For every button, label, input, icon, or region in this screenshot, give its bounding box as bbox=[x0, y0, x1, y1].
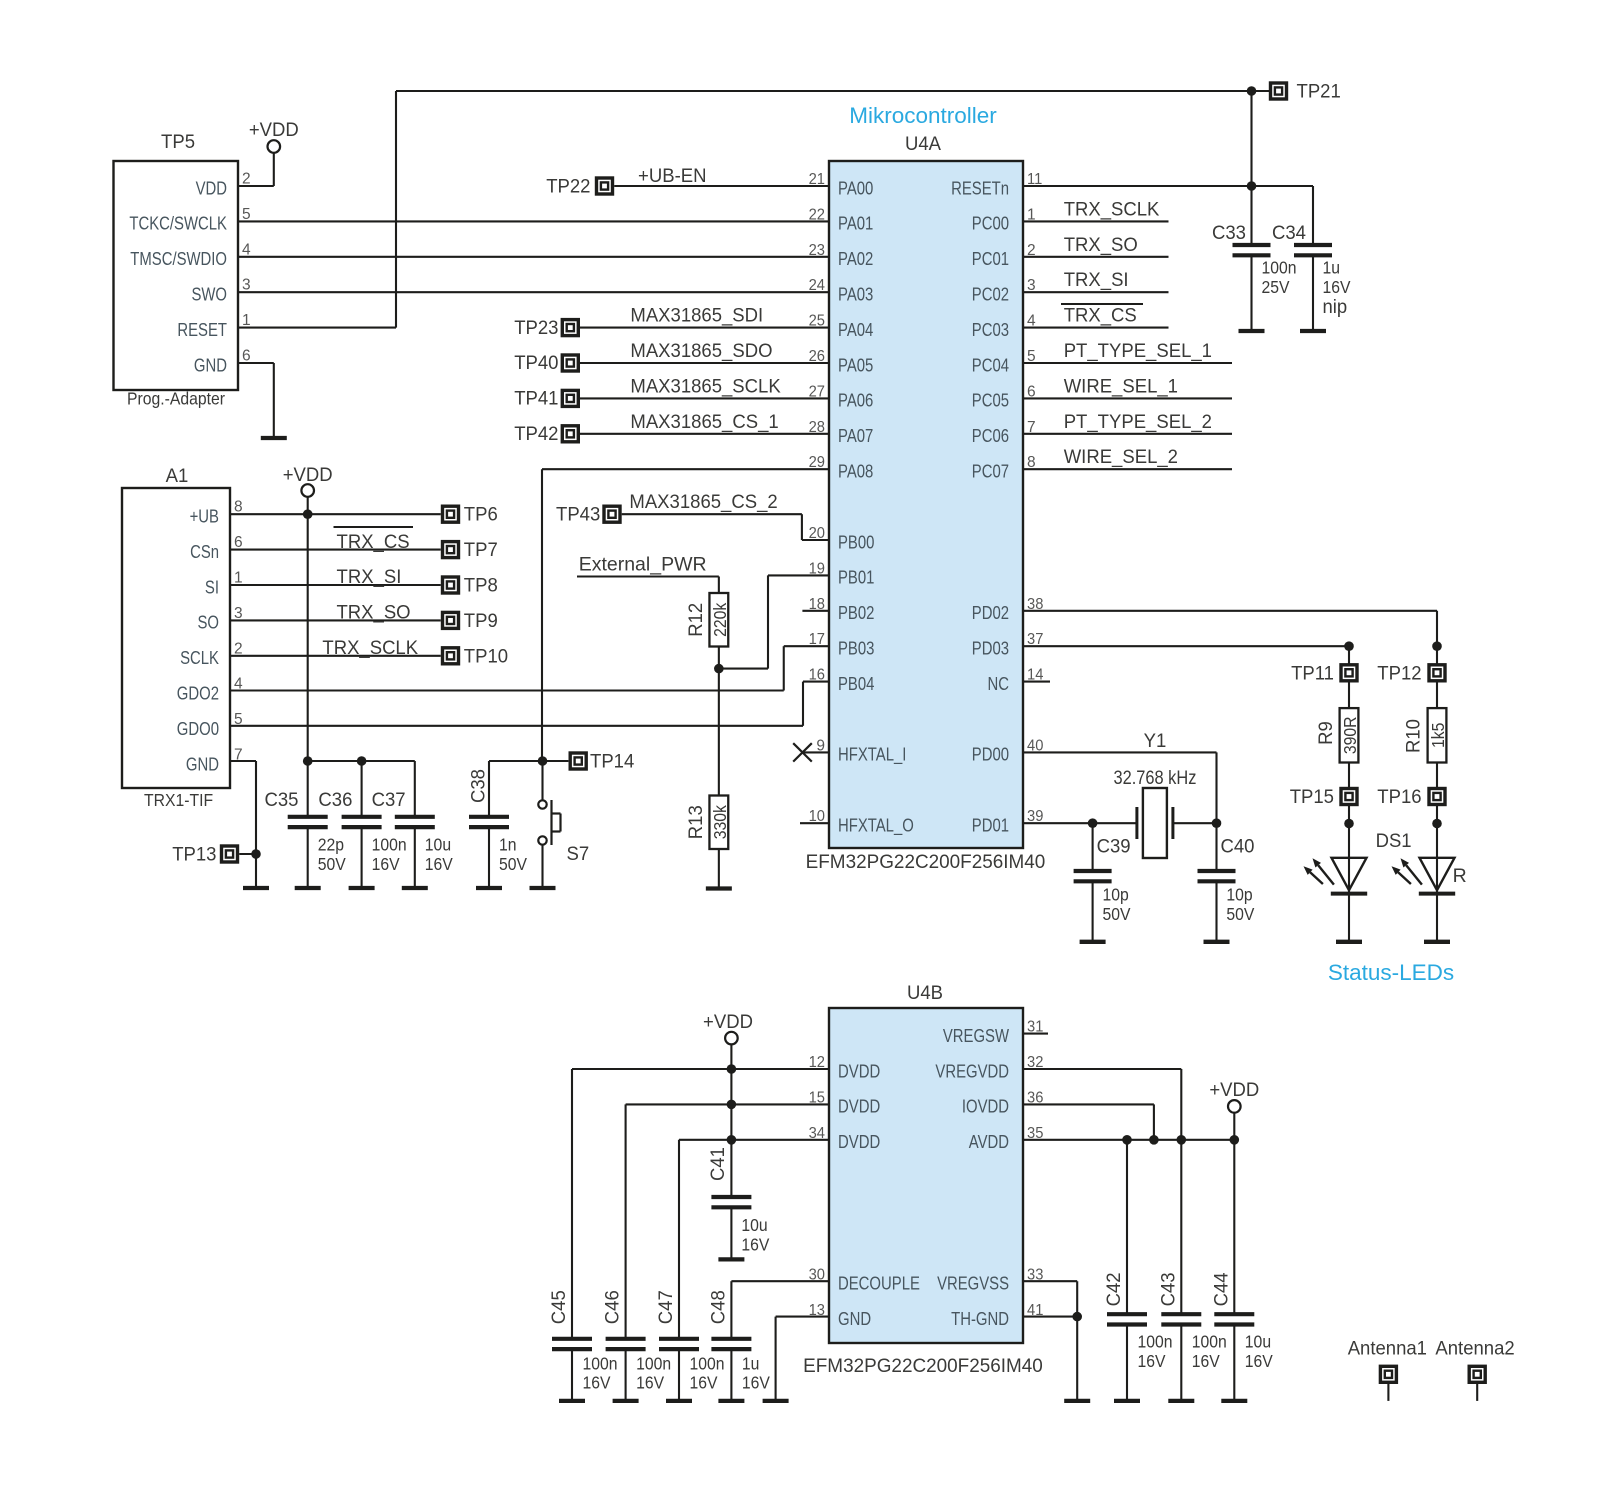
svg-text:TP11: TP11 bbox=[1291, 662, 1334, 684]
svg-text:Antenna1: Antenna1 bbox=[1348, 1337, 1427, 1359]
svg-text:GND: GND bbox=[194, 354, 227, 375]
svg-text:16V: 16V bbox=[1245, 1351, 1273, 1371]
svg-text:Status-LEDs: Status-LEDs bbox=[1328, 960, 1454, 985]
svg-text:25V: 25V bbox=[1262, 277, 1290, 297]
svg-text:IOVDD: IOVDD bbox=[962, 1096, 1009, 1117]
svg-text:PC02: PC02 bbox=[972, 284, 1009, 305]
svg-text:32.768 kHz: 32.768 kHz bbox=[1114, 767, 1197, 789]
svg-text:U4A: U4A bbox=[905, 133, 941, 155]
svg-text:TP13: TP13 bbox=[172, 844, 216, 866]
svg-text:16V: 16V bbox=[636, 1373, 664, 1393]
svg-text:PB04: PB04 bbox=[838, 673, 874, 694]
svg-text:External_PWR: External_PWR bbox=[579, 554, 707, 576]
svg-text:TRX1-TIF: TRX1-TIF bbox=[144, 790, 213, 810]
svg-text:TP41: TP41 bbox=[514, 388, 558, 410]
svg-text:TCKC/SWCLK: TCKC/SWCLK bbox=[129, 213, 227, 234]
svg-text:PC06: PC06 bbox=[972, 425, 1009, 446]
svg-text:TP10: TP10 bbox=[464, 645, 508, 667]
svg-text:PT_TYPE_SEL_2: PT_TYPE_SEL_2 bbox=[1064, 411, 1212, 433]
svg-text:10u: 10u bbox=[1245, 1332, 1271, 1352]
svg-text:R9: R9 bbox=[1315, 721, 1337, 745]
svg-text:C40: C40 bbox=[1221, 836, 1255, 858]
svg-text:SI: SI bbox=[205, 576, 219, 597]
svg-text:16V: 16V bbox=[425, 854, 453, 874]
svg-text:+VDD: +VDD bbox=[703, 1011, 753, 1033]
svg-text:TP5: TP5 bbox=[161, 131, 195, 153]
svg-text:VREGVSS: VREGVSS bbox=[937, 1273, 1009, 1294]
svg-text:+VDD: +VDD bbox=[249, 119, 299, 141]
svg-text:C41: C41 bbox=[707, 1147, 729, 1181]
svg-text:220k: 220k bbox=[710, 602, 730, 636]
svg-text:C45: C45 bbox=[548, 1290, 570, 1324]
svg-text:PA03: PA03 bbox=[838, 284, 873, 305]
svg-text:TRX_SI: TRX_SI bbox=[1064, 269, 1129, 291]
svg-text:TRX_SCLK: TRX_SCLK bbox=[1064, 198, 1160, 220]
svg-text:TP15: TP15 bbox=[1290, 786, 1334, 808]
svg-text:R: R bbox=[1453, 865, 1467, 887]
svg-text:C34: C34 bbox=[1272, 222, 1306, 244]
svg-text:C44: C44 bbox=[1210, 1272, 1232, 1306]
svg-text:TP22: TP22 bbox=[546, 176, 590, 198]
svg-text:EFM32PG22C200F256IM40: EFM32PG22C200F256IM40 bbox=[803, 1355, 1043, 1377]
svg-text:TP43: TP43 bbox=[556, 504, 600, 526]
svg-text:22: 22 bbox=[809, 206, 825, 223]
svg-text:100n: 100n bbox=[1192, 1332, 1227, 1352]
svg-text:100n: 100n bbox=[372, 835, 407, 855]
svg-text:GND: GND bbox=[838, 1308, 871, 1329]
svg-text:GDO2: GDO2 bbox=[177, 683, 219, 704]
svg-text:PA05: PA05 bbox=[838, 354, 873, 375]
svg-text:CSn: CSn bbox=[190, 541, 219, 562]
svg-text:DVDD: DVDD bbox=[838, 1096, 880, 1117]
svg-text:10p: 10p bbox=[1103, 885, 1129, 905]
svg-text:HFXTAL_I: HFXTAL_I bbox=[838, 744, 906, 766]
svg-text:DS1: DS1 bbox=[1376, 830, 1412, 852]
svg-text:TP16: TP16 bbox=[1377, 786, 1421, 808]
svg-text:+VDD: +VDD bbox=[1209, 1079, 1259, 1101]
svg-text:TP42: TP42 bbox=[514, 423, 558, 445]
svg-text:16V: 16V bbox=[372, 854, 400, 874]
svg-text:GND: GND bbox=[186, 753, 219, 774]
svg-text:AVDD: AVDD bbox=[969, 1131, 1009, 1152]
svg-text:PA00: PA00 bbox=[838, 177, 873, 198]
svg-text:C39: C39 bbox=[1097, 836, 1131, 858]
svg-text:PT_TYPE_SEL_1: PT_TYPE_SEL_1 bbox=[1064, 340, 1212, 362]
svg-text:DVDD: DVDD bbox=[838, 1131, 880, 1152]
svg-text:100n: 100n bbox=[636, 1354, 671, 1374]
svg-text:24: 24 bbox=[809, 277, 826, 294]
svg-text:PA04: PA04 bbox=[838, 319, 873, 340]
svg-text:TP12: TP12 bbox=[1377, 662, 1421, 684]
svg-text:390R: 390R bbox=[1340, 717, 1360, 755]
svg-text:C47: C47 bbox=[655, 1290, 677, 1324]
svg-text:TRX_SI: TRX_SI bbox=[337, 566, 402, 588]
svg-text:PC05: PC05 bbox=[972, 390, 1009, 411]
svg-text:TRX_CS: TRX_CS bbox=[1064, 305, 1137, 327]
svg-text:1k5: 1k5 bbox=[1428, 723, 1448, 748]
svg-text:C43: C43 bbox=[1157, 1272, 1179, 1306]
svg-text:TMSC/SWDIO: TMSC/SWDIO bbox=[130, 248, 227, 269]
svg-text:+UB-EN: +UB-EN bbox=[638, 165, 707, 187]
svg-text:VREGVDD: VREGVDD bbox=[935, 1060, 1009, 1081]
svg-text:PD01: PD01 bbox=[972, 815, 1009, 836]
svg-text:C42: C42 bbox=[1103, 1272, 1125, 1306]
svg-text:TP40: TP40 bbox=[514, 352, 558, 374]
svg-text:MAX31865_SDO: MAX31865_SDO bbox=[630, 340, 772, 362]
svg-text:1u: 1u bbox=[742, 1354, 760, 1374]
svg-text:22p: 22p bbox=[318, 835, 344, 855]
svg-text:TRX_CS: TRX_CS bbox=[337, 531, 410, 553]
svg-text:PA02: PA02 bbox=[838, 248, 873, 269]
svg-text:TP8: TP8 bbox=[464, 575, 498, 597]
svg-text:23: 23 bbox=[809, 242, 825, 259]
svg-text:PB03: PB03 bbox=[838, 638, 874, 659]
svg-text:16V: 16V bbox=[1323, 277, 1351, 297]
svg-text:GDO0: GDO0 bbox=[177, 718, 219, 739]
svg-text:Antenna2: Antenna2 bbox=[1435, 1337, 1514, 1359]
svg-text:PC01: PC01 bbox=[972, 248, 1009, 269]
svg-text:TRX_SO: TRX_SO bbox=[1064, 234, 1138, 256]
svg-text:100n: 100n bbox=[583, 1354, 618, 1374]
svg-text:TP7: TP7 bbox=[464, 539, 498, 561]
svg-text:10u: 10u bbox=[741, 1215, 767, 1235]
svg-text:Mikrocontroller: Mikrocontroller bbox=[849, 103, 997, 128]
svg-text:TRX_SO: TRX_SO bbox=[337, 601, 411, 623]
svg-text:WIRE_SEL_2: WIRE_SEL_2 bbox=[1064, 446, 1178, 468]
svg-text:PD02: PD02 bbox=[972, 602, 1009, 623]
svg-text:EFM32PG22C200F256IM40: EFM32PG22C200F256IM40 bbox=[806, 851, 1046, 873]
svg-text:MAX31865_CS_1: MAX31865_CS_1 bbox=[630, 411, 778, 433]
svg-text:R10: R10 bbox=[1403, 719, 1425, 753]
svg-text:TP21: TP21 bbox=[1297, 81, 1341, 103]
svg-text:MAX31865_SDI: MAX31865_SDI bbox=[630, 305, 763, 327]
svg-text:MAX31865_CS_2: MAX31865_CS_2 bbox=[629, 491, 777, 513]
svg-text:PC07: PC07 bbox=[972, 461, 1009, 482]
svg-text:C46: C46 bbox=[602, 1290, 624, 1324]
svg-text:PB02: PB02 bbox=[838, 602, 874, 623]
svg-text:50V: 50V bbox=[1103, 904, 1131, 924]
svg-text:1u: 1u bbox=[1323, 258, 1341, 278]
svg-text:16V: 16V bbox=[583, 1373, 611, 1393]
svg-text:+VDD: +VDD bbox=[283, 464, 333, 486]
svg-text:PD00: PD00 bbox=[972, 744, 1009, 765]
svg-text:100n: 100n bbox=[690, 1354, 725, 1374]
svg-text:C35: C35 bbox=[265, 789, 299, 811]
svg-text:16V: 16V bbox=[1192, 1351, 1220, 1371]
svg-text:TRX_SCLK: TRX_SCLK bbox=[322, 637, 418, 659]
svg-text:C48: C48 bbox=[707, 1290, 729, 1324]
svg-text:WIRE_SEL_1: WIRE_SEL_1 bbox=[1064, 375, 1178, 397]
svg-text:A1: A1 bbox=[166, 465, 189, 487]
svg-text:SWO: SWO bbox=[192, 284, 228, 305]
svg-text:MAX31865_SCLK: MAX31865_SCLK bbox=[630, 375, 780, 397]
svg-text:TP23: TP23 bbox=[514, 317, 558, 339]
svg-text:C38: C38 bbox=[468, 769, 490, 803]
svg-text:VDD: VDD bbox=[196, 177, 227, 198]
svg-text:50V: 50V bbox=[499, 854, 527, 874]
svg-text:330k: 330k bbox=[710, 805, 730, 839]
svg-text:TH-GND: TH-GND bbox=[951, 1308, 1009, 1329]
svg-text:VREGSW: VREGSW bbox=[943, 1025, 1009, 1046]
svg-text:SCLK: SCLK bbox=[180, 647, 219, 668]
svg-text:Prog.-Adapter: Prog.-Adapter bbox=[127, 389, 225, 409]
svg-text:100n: 100n bbox=[1138, 1332, 1173, 1352]
svg-text:TP9: TP9 bbox=[464, 610, 498, 632]
svg-text:RESET: RESET bbox=[177, 319, 227, 340]
svg-text:16V: 16V bbox=[1138, 1351, 1166, 1371]
svg-text:10p: 10p bbox=[1226, 885, 1252, 905]
svg-text:PA06: PA06 bbox=[838, 390, 873, 411]
svg-text:nip: nip bbox=[1323, 296, 1348, 318]
svg-text:NC: NC bbox=[988, 673, 1010, 694]
svg-text:S7: S7 bbox=[567, 843, 590, 865]
svg-text:50V: 50V bbox=[1226, 904, 1254, 924]
svg-text:16V: 16V bbox=[690, 1373, 718, 1393]
svg-text:PC04: PC04 bbox=[972, 354, 1009, 375]
svg-text:C33: C33 bbox=[1212, 222, 1246, 244]
svg-text:C36: C36 bbox=[318, 789, 352, 811]
svg-text:100n: 100n bbox=[1262, 258, 1297, 278]
svg-text:TP14: TP14 bbox=[590, 751, 634, 773]
svg-text:PC03: PC03 bbox=[972, 319, 1009, 340]
svg-text:DECOUPLE: DECOUPLE bbox=[838, 1273, 920, 1294]
svg-text:DVDD: DVDD bbox=[838, 1060, 880, 1081]
svg-text:1n: 1n bbox=[499, 835, 517, 855]
svg-text:PC00: PC00 bbox=[972, 213, 1009, 234]
svg-text:PA08: PA08 bbox=[838, 461, 873, 482]
svg-text:U4B: U4B bbox=[907, 982, 943, 1004]
svg-text:16V: 16V bbox=[741, 1235, 769, 1255]
svg-text:PB00: PB00 bbox=[838, 531, 874, 552]
svg-text:HFXTAL_O: HFXTAL_O bbox=[838, 815, 914, 837]
svg-text:10u: 10u bbox=[425, 835, 451, 855]
svg-text:Y1: Y1 bbox=[1144, 730, 1167, 752]
svg-text:PB01: PB01 bbox=[838, 567, 874, 588]
svg-text:PA07: PA07 bbox=[838, 425, 873, 446]
svg-text:R13: R13 bbox=[685, 805, 707, 839]
svg-text:PD03: PD03 bbox=[972, 638, 1009, 659]
svg-text:+UB: +UB bbox=[190, 506, 219, 527]
svg-text:PA01: PA01 bbox=[838, 213, 873, 234]
svg-text:SO: SO bbox=[198, 612, 220, 633]
svg-text:C37: C37 bbox=[372, 789, 406, 811]
svg-text:RESETn: RESETn bbox=[951, 177, 1009, 198]
svg-text:R12: R12 bbox=[685, 603, 707, 637]
svg-text:50V: 50V bbox=[318, 854, 346, 874]
svg-text:TP6: TP6 bbox=[464, 504, 498, 526]
svg-text:16V: 16V bbox=[742, 1373, 770, 1393]
